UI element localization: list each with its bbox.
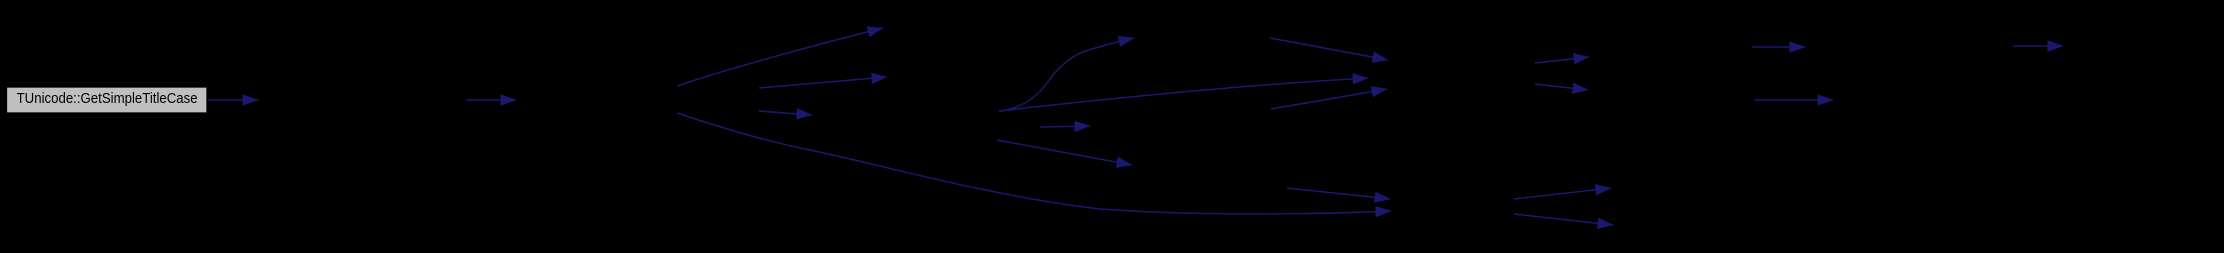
edge node3 to far bottom node (long curve) xyxy=(677,113,1391,214)
edge node7 S-curve up xyxy=(999,38,1134,112)
edge node7b short xyxy=(1040,126,1090,127)
edge node13 horizontal xyxy=(1752,46,1805,48)
edge node10 to bottom cluster xyxy=(1287,188,1390,199)
edge node7 long right xyxy=(999,78,1368,111)
edge node3b to node6 (short) xyxy=(759,111,812,115)
edge node7 down-right xyxy=(997,140,1132,165)
edge root to node2 xyxy=(208,99,258,101)
edge node11 up short xyxy=(1535,57,1589,63)
edge node12 down-right xyxy=(1514,214,1613,225)
node TUnicode::GetSimpleTitleCase (root, grey filled) xyxy=(7,87,208,113)
edge node3 to node4 (up-right) xyxy=(677,28,883,86)
svg-text:TUnicode::GetSimpleTitleCase: TUnicode::GetSimpleTitleCase xyxy=(17,90,198,107)
edge node14 horizontal xyxy=(1754,99,1833,101)
edge node9 up-right xyxy=(1271,89,1387,109)
edge node15 horizontal far right xyxy=(2013,45,2063,47)
edge node12 up-right xyxy=(1514,188,1611,199)
edge node8 down-right xyxy=(1270,38,1388,60)
edge node11 down short xyxy=(1535,84,1588,90)
edge node2 to node3 xyxy=(466,99,516,101)
edge node3b to node5 xyxy=(759,77,887,88)
